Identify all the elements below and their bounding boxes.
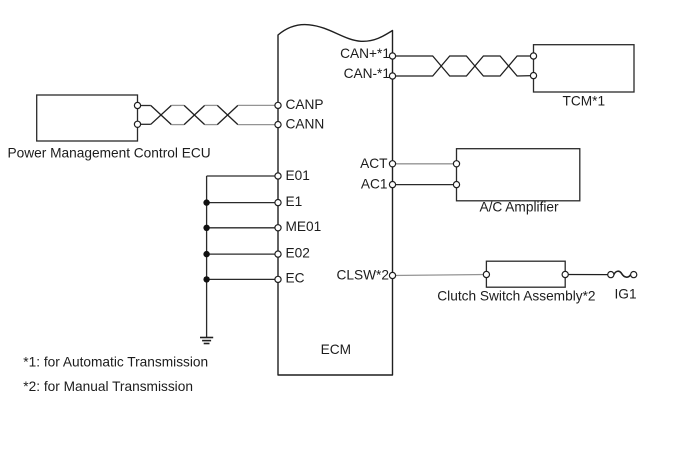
- svg-text:*2: for Manual Transmission: *2: for Manual Transmission: [23, 379, 193, 394]
- svg-text:ME01: ME01: [286, 219, 322, 234]
- svg-text:ECM: ECM: [321, 342, 351, 357]
- svg-text:AC1: AC1: [361, 177, 388, 192]
- svg-text:E01: E01: [286, 168, 310, 183]
- svg-text:E1: E1: [286, 194, 303, 209]
- svg-text:CAN+*1: CAN+*1: [340, 46, 390, 61]
- svg-text:Power Management Control ECU: Power Management Control ECU: [8, 146, 211, 161]
- svg-text:CAN-*1: CAN-*1: [344, 66, 390, 81]
- svg-text:*1: for Automatic Transmission: *1: for Automatic Transmission: [23, 355, 208, 370]
- svg-text:EC: EC: [286, 271, 305, 286]
- svg-text:ACT: ACT: [360, 156, 388, 171]
- svg-text:IG1: IG1: [615, 286, 637, 301]
- svg-text:E02: E02: [286, 245, 310, 260]
- svg-text:TCM*1: TCM*1: [563, 93, 606, 108]
- svg-text:CANN: CANN: [286, 116, 325, 131]
- svg-text:A/C Amplifier: A/C Amplifier: [479, 200, 559, 215]
- svg-text:Clutch Switch Assembly*2: Clutch Switch Assembly*2: [437, 289, 595, 304]
- svg-text:CLSW*2: CLSW*2: [337, 268, 389, 283]
- svg-text:CANP: CANP: [286, 97, 324, 112]
